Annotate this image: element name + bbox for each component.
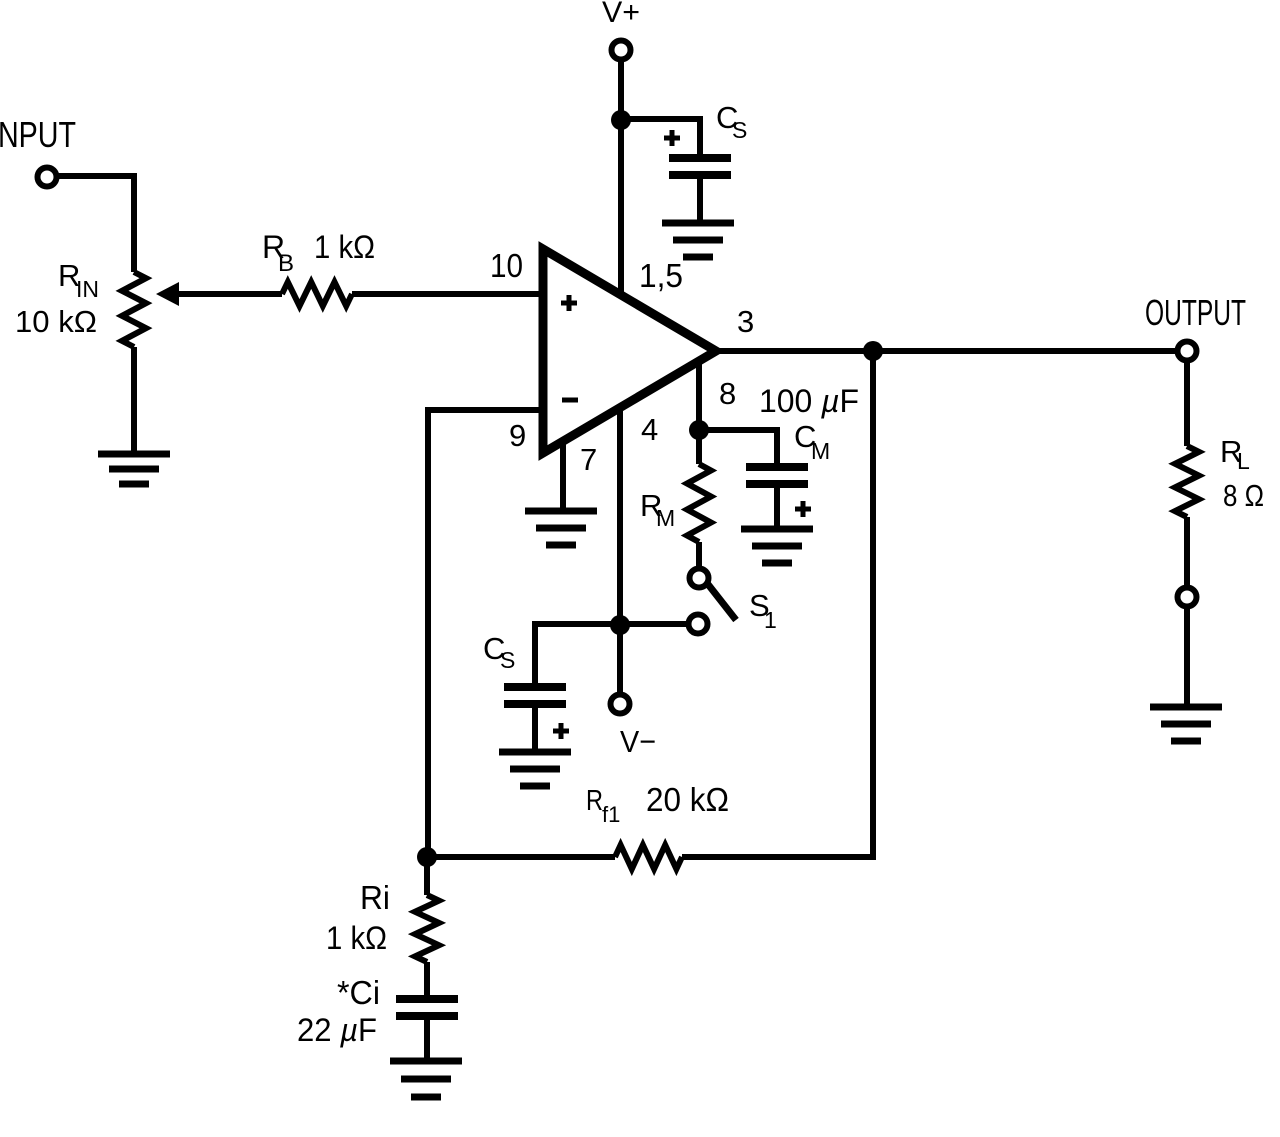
svg-text:4: 4 (641, 412, 658, 447)
svg-text:20 kΩ: 20 kΩ (646, 781, 729, 818)
svg-text:L: L (1237, 448, 1250, 474)
svg-text:1: 1 (764, 607, 777, 633)
svg-text:22 µF: 22 µF (297, 1012, 377, 1048)
svg-text:S: S (500, 647, 515, 673)
svg-text:1,5: 1,5 (639, 257, 683, 294)
svg-text:M: M (656, 505, 675, 531)
svg-text:f1: f1 (602, 802, 620, 827)
svg-text:8: 8 (719, 376, 736, 411)
svg-text:7: 7 (580, 442, 597, 477)
svg-text:INPUT: INPUT (0, 114, 76, 155)
svg-text:IN: IN (76, 276, 99, 302)
svg-text:10: 10 (490, 247, 523, 284)
svg-text:R: R (586, 785, 603, 817)
svg-text:8 Ω: 8 Ω (1223, 478, 1264, 513)
svg-text:V−: V− (620, 724, 656, 759)
svg-text:M: M (811, 438, 830, 464)
svg-text:S: S (732, 117, 747, 143)
svg-text:B: B (278, 250, 294, 277)
svg-text:3: 3 (737, 304, 754, 339)
svg-text:9: 9 (509, 418, 526, 453)
svg-text:*Ci: *Ci (337, 974, 380, 1011)
svg-text:1 kΩ: 1 kΩ (314, 229, 375, 265)
svg-text:V+: V+ (602, 0, 640, 29)
svg-text:1 kΩ: 1 kΩ (326, 920, 387, 956)
svg-text:10 kΩ: 10 kΩ (15, 304, 97, 339)
svg-text:100 µF: 100 µF (759, 383, 859, 419)
svg-text:OUTPUT: OUTPUT (1145, 292, 1246, 333)
svg-text:Ri: Ri (360, 879, 390, 916)
